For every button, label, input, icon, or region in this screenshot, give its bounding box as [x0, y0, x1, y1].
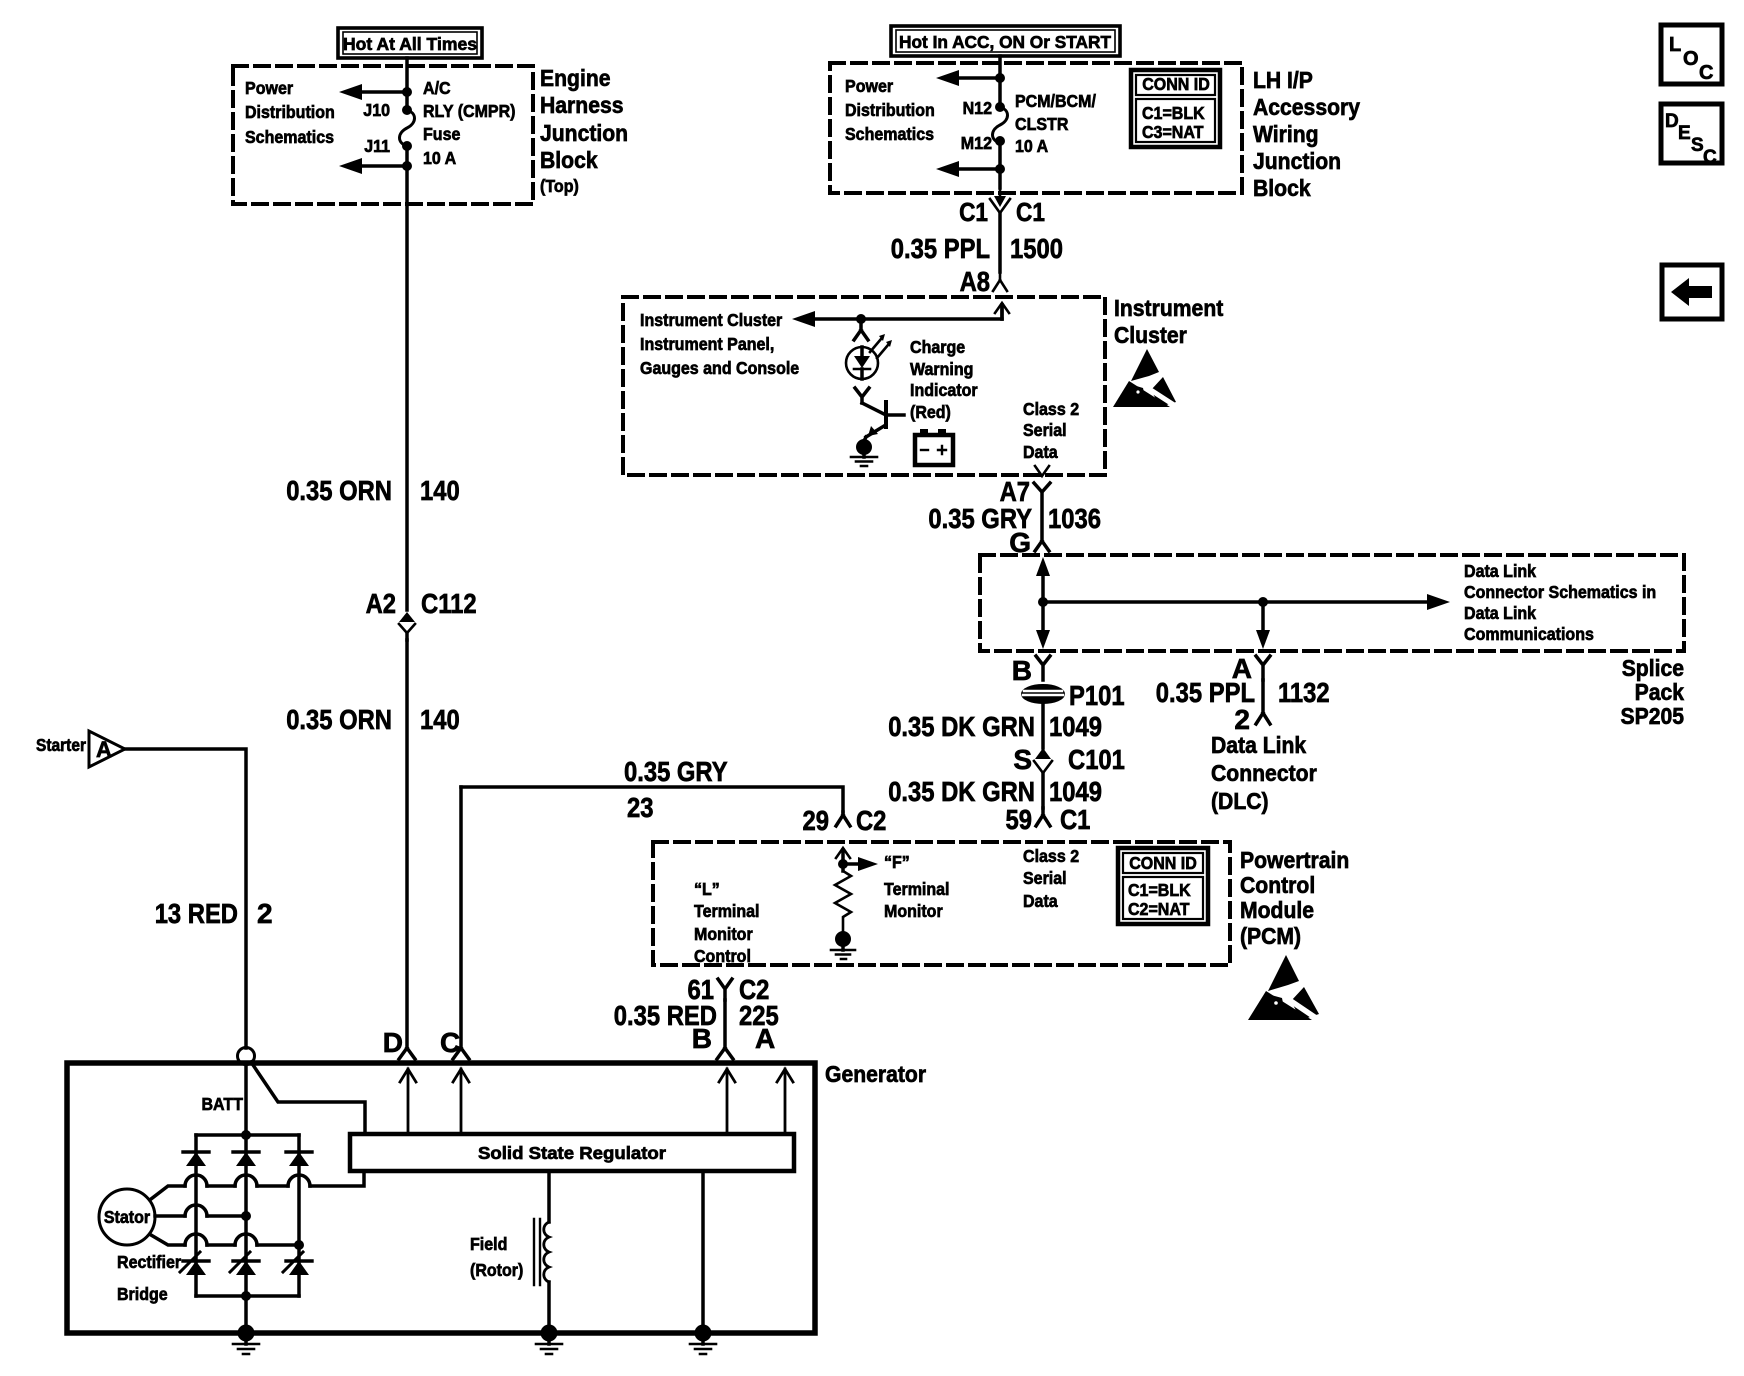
wire: 0.35 GRY 23 from generator C to PCM 29 — [461, 787, 843, 1048]
connector A7 at IC bottom — [1000, 466, 1050, 507]
ground (PCM) — [831, 931, 855, 959]
bottom diodes (avalanche) — [180, 1252, 312, 1275]
svg-text:1049: 1049 — [1049, 776, 1102, 807]
stator phase line 2 — [155, 1205, 251, 1221]
svg-text:Distribution: Distribution — [845, 100, 935, 120]
svg-text:140: 140 — [420, 704, 460, 735]
label: Instrument Cluster (right) — [1114, 295, 1223, 348]
svg-text:CLSTR: CLSTR — [1015, 114, 1069, 134]
svg-text:29: 29 — [803, 805, 830, 836]
stator phase line 3 — [151, 1234, 304, 1250]
Generator solid box — [67, 1063, 815, 1333]
svg-text:B: B — [692, 1023, 712, 1054]
svg-text:P101: P101 — [1069, 680, 1125, 711]
svg-text:0.35 DK GRN: 0.35 DK GRN — [888, 776, 1035, 807]
svg-text:Communications: Communications — [1464, 624, 1594, 644]
svg-text:Terminal: Terminal — [694, 901, 760, 921]
svg-text:Data: Data — [1023, 891, 1058, 911]
pins D / C labels — [383, 1027, 460, 1058]
svg-text:Serial: Serial — [1023, 420, 1067, 440]
svg-text:S: S — [1013, 744, 1032, 775]
label: LH I/P Accessory Wiring Junction Block — [1253, 67, 1360, 201]
svg-text:J11: J11 — [364, 136, 390, 156]
CONN ID box (LH): C1=BLK C3=NAT — [1131, 70, 1220, 147]
svg-text:C: C — [1703, 147, 1717, 168]
connector A8 into Instrument Cluster — [960, 266, 1009, 319]
svg-text:D: D — [383, 1027, 403, 1058]
svg-text:Block: Block — [540, 147, 598, 173]
label 0.35 PPL 1500 — [891, 233, 1063, 264]
svg-text:Fuse: Fuse — [423, 124, 461, 144]
svg-text:Indicator: Indicator — [910, 380, 978, 400]
battery icon — [915, 429, 953, 465]
ESD symbol (instrument cluster) — [1113, 349, 1176, 407]
svg-text:Starter: Starter — [36, 735, 86, 755]
DESC icon box — [1661, 104, 1722, 168]
svg-text:1049: 1049 — [1049, 711, 1102, 742]
text: Instrument Cluster Instrument Panel, Gauges and Console — [640, 310, 799, 378]
wire to splice pack — [1040, 492, 1044, 541]
fuse PCM/BCM/CLSTR 10A — [993, 102, 1008, 146]
svg-text:1500: 1500 — [1010, 233, 1063, 264]
back arrow icon box — [1662, 265, 1722, 319]
rectifier bridge columns — [196, 1135, 299, 1296]
label 0.35 PPL 1132 — [1156, 677, 1330, 708]
connector C into generator — [453, 1048, 469, 1059]
label 0.35 ORN 140 (upper) — [286, 475, 460, 506]
connector B below splice — [1012, 655, 1050, 686]
svg-text:Schematics: Schematics — [845, 124, 934, 144]
wire to generator B/A — [723, 1000, 727, 1048]
LOC icon box — [1661, 25, 1722, 84]
svg-text:2: 2 — [1234, 704, 1250, 735]
svg-text:C1=BLK: C1=BLK — [1128, 880, 1191, 900]
svg-text:A8: A8 — [960, 266, 990, 297]
pins B / A labels — [692, 1023, 775, 1054]
svg-text:Module: Module — [1240, 897, 1314, 923]
svg-text:(PCM): (PCM) — [1240, 923, 1301, 949]
wire BATT to regulator (diagonal) — [251, 1062, 365, 1134]
ground (regulator) — [690, 1325, 716, 1355]
BATT terminal circle — [238, 1048, 255, 1065]
LED charge warning indicator — [846, 334, 892, 379]
svg-text:59: 59 — [1006, 804, 1033, 835]
svg-text:(Rotor): (Rotor) — [470, 1260, 523, 1280]
svg-text:CONN ID: CONN ID — [1129, 853, 1197, 873]
svg-text:C112: C112 — [421, 588, 477, 619]
svg-text:E: E — [1678, 123, 1691, 144]
connector C1 / C1 (junction block to harness) — [959, 186, 1045, 272]
CONN ID box (PCM): C1=BLK C2=NAT — [1118, 848, 1208, 924]
svg-text:“F”: “F” — [884, 852, 910, 872]
svg-text:Connector Schematics in: Connector Schematics in — [1464, 582, 1656, 602]
svg-text:Hot In ACC, ON Or START: Hot In ACC, ON Or START — [899, 32, 1111, 52]
svg-text:Rectifier: Rectifier — [117, 1252, 181, 1272]
connector C101 pin S — [1013, 744, 1125, 808]
svg-text:0.35 GRY: 0.35 GRY — [624, 756, 728, 787]
Solid State Regulator box — [350, 1134, 794, 1171]
text: Charge Warning Indicator (Red) — [910, 337, 978, 422]
svg-text:RLY (CMPR): RLY (CMPR) — [423, 101, 516, 121]
svg-text:A: A — [755, 1023, 775, 1054]
svg-text:Harness: Harness — [540, 92, 624, 118]
label 0.35 DK GRN 1049 (lower) — [888, 776, 1102, 807]
splice grommet P101 — [1022, 680, 1125, 748]
svg-text:Power: Power — [245, 78, 293, 98]
svg-text:Class 2: Class 2 — [1023, 399, 1079, 419]
Hot In ACC, ON Or START label box — [891, 26, 1120, 56]
wire BATT down to rectifier bus — [244, 1064, 248, 1135]
splice branch down to DLC — [1256, 602, 1270, 649]
svg-text:Gauges and Console: Gauges and Console — [640, 358, 799, 378]
svg-text:Schematics: Schematics — [245, 127, 334, 147]
wire: 13 RED 2 from starter to generator BATT — [125, 749, 246, 1048]
svg-text:Block: Block — [1253, 175, 1311, 201]
rectifier bridge bottom bus — [196, 1291, 299, 1333]
svg-text:1132: 1132 — [1278, 677, 1330, 708]
Engine Harness Junction Block dashed box — [233, 66, 533, 204]
text: Class 2 Serial Data (IC) — [1023, 399, 1079, 462]
svg-text:Distribution: Distribution — [245, 102, 335, 122]
svg-text:C1: C1 — [959, 197, 988, 227]
svg-text:Hot At All Times: Hot At All Times — [343, 34, 477, 54]
connector between LED and transistor — [855, 388, 869, 403]
svg-text:Data Link: Data Link — [1211, 732, 1307, 758]
fuse A/C RLY (CMPR) 10A — [400, 105, 415, 151]
svg-text:Instrument Panel,: Instrument Panel, — [640, 334, 774, 354]
svg-text:(Red): (Red) — [910, 402, 951, 422]
svg-text:Power: Power — [845, 76, 893, 96]
label 0.35 GRY 23 — [624, 756, 728, 823]
ESD symbol (PCM) — [1248, 955, 1319, 1020]
fuse value: PCM/BCM/CLSTR 10 A — [1015, 91, 1096, 156]
connector D into generator — [399, 1048, 415, 1059]
svg-text:PCM/BCM/: PCM/BCM/ — [1015, 91, 1096, 111]
svg-text:Monitor: Monitor — [694, 924, 753, 944]
splice horizontal wire to data link schematics — [1043, 594, 1450, 610]
connector C2 pin 61 below PCM — [688, 974, 770, 1005]
svg-text:Instrument Cluster: Instrument Cluster — [640, 310, 782, 330]
svg-text:D: D — [1665, 111, 1679, 132]
svg-text:Accessory: Accessory — [1253, 94, 1360, 120]
label 0.35 RED 225 — [614, 1000, 779, 1031]
svg-text:C1: C1 — [1060, 804, 1090, 835]
connector into generator top — [717, 1048, 733, 1059]
svg-text:C1=BLK: C1=BLK — [1142, 103, 1205, 123]
text: Data Link Connector Schematics in Data Link Communications — [1464, 561, 1656, 644]
rectifier bridge top bus — [196, 1130, 299, 1140]
svg-text:0.35 PPL: 0.35 PPL — [891, 233, 990, 264]
svg-text:Monitor: Monitor — [884, 901, 943, 921]
label: Data Link Connector (DLC) — [1211, 732, 1317, 814]
label 13 RED 2 — [155, 898, 273, 929]
wire: 0.35 ORN 140 down to generator D — [405, 640, 409, 1048]
text: Power Distribution Schematics (LH box) — [845, 76, 935, 144]
svg-text:Warning: Warning — [910, 359, 973, 379]
wire arrow to Power Distribution (lower, LH) — [936, 141, 1005, 177]
Splice Pack SP205 dashed box — [980, 555, 1684, 651]
svg-text:Generator: Generator — [825, 1061, 926, 1087]
svg-text:Cluster: Cluster — [1114, 322, 1187, 348]
svg-text:“L”: “L” — [694, 879, 720, 899]
svg-text:0.35 ORN: 0.35 ORN — [286, 704, 392, 735]
svg-text:Charge: Charge — [910, 337, 965, 357]
Field (Rotor) coil — [470, 1171, 549, 1333]
splice vertical wire with arrows — [1036, 557, 1050, 649]
svg-text:Data: Data — [1023, 442, 1058, 462]
svg-text:13 RED: 13 RED — [155, 898, 238, 929]
generator terminal arrows D C B A — [400, 1069, 793, 1134]
svg-text:N12: N12 — [963, 98, 993, 118]
text: "L" Terminal Monitor Control — [694, 879, 760, 966]
wire arrow to Power Distribution (upper) — [339, 84, 412, 100]
connector C1 pin 59 into PCM — [1006, 804, 1091, 835]
svg-text:Pack: Pack — [1635, 679, 1685, 705]
label: Powertrain Control Module (PCM) — [1240, 847, 1349, 949]
svg-text:C2=NAT: C2=NAT — [1128, 899, 1190, 919]
text: Class 2 Serial Data (PCM) — [1023, 846, 1079, 911]
svg-text:Junction: Junction — [1253, 148, 1341, 174]
connector C2 pin 29 into PCM — [803, 805, 887, 836]
svg-text:LH I/P: LH I/P — [1253, 67, 1313, 93]
svg-text:C101: C101 — [1068, 744, 1125, 775]
svg-text:A/C: A/C — [423, 78, 451, 98]
svg-text:Control: Control — [694, 946, 751, 966]
label 0.35 DK GRN 1049 (upper) — [888, 711, 1102, 742]
svg-text:Powertrain: Powertrain — [1240, 847, 1349, 873]
svg-text:C3=NAT: C3=NAT — [1142, 122, 1204, 142]
connector split below junction — [854, 319, 868, 340]
ground (bridge) — [233, 1325, 259, 1355]
label: Splice Pack SP205 — [1621, 655, 1685, 729]
svg-text:CONN ID: CONN ID — [1142, 74, 1210, 94]
Stator circle — [99, 1189, 155, 1245]
svg-text:Terminal: Terminal — [884, 879, 950, 899]
text: Power Distribution Schematics (engine box) — [245, 78, 335, 147]
wire: IC internal horizontal with left arrow — [792, 305, 1002, 327]
LH I/P Accessory Wiring Junction Block dashed box — [830, 63, 1242, 193]
svg-text:C: C — [1699, 62, 1713, 84]
text: "F" Terminal Monitor — [884, 852, 950, 921]
svg-text:Solid State Regulator: Solid State Regulator — [478, 1143, 666, 1163]
svg-text:Data Link: Data Link — [1464, 603, 1536, 623]
connector C112 pin A2 — [366, 588, 477, 640]
svg-text:L: L — [1669, 34, 1681, 56]
svg-text:Engine: Engine — [540, 65, 611, 91]
svg-text:A2: A2 — [366, 588, 396, 619]
stator phase line 1 (to regulator) — [151, 1174, 364, 1199]
svg-text:C1: C1 — [1016, 197, 1045, 227]
wire down to C1 connector — [998, 169, 1002, 188]
svg-text:2: 2 — [257, 898, 273, 929]
label 0.35 ORN 140 (lower) — [286, 704, 460, 735]
Powertrain Control Module dashed box — [653, 842, 1230, 965]
svg-text:C2: C2 — [856, 805, 886, 836]
svg-text:Class 2: Class 2 — [1023, 846, 1079, 866]
Starter triangle connector pin A — [36, 731, 125, 767]
label: Engine Harness Junction Block (Top) — [540, 65, 628, 196]
svg-text:(DLC): (DLC) — [1211, 788, 1269, 814]
svg-text:Wiring: Wiring — [1253, 121, 1319, 147]
svg-text:10 A: 10 A — [1015, 136, 1048, 156]
svg-text:Data Link: Data Link — [1464, 561, 1536, 581]
label 0.35 GRY 1036 — [928, 503, 1101, 534]
Instrument Cluster dashed box — [623, 297, 1105, 475]
svg-text:Splice: Splice — [1622, 655, 1684, 681]
top diodes — [183, 1152, 312, 1166]
wire and pin 2 of DLC — [1234, 680, 1270, 735]
wire: 0.35 ORN 140 down to C112 — [405, 166, 409, 610]
svg-text:BATT: BATT — [202, 1094, 244, 1114]
svg-text:SP205: SP205 — [1621, 703, 1685, 729]
svg-text:Bridge: Bridge — [117, 1284, 168, 1304]
svg-text:140: 140 — [420, 475, 460, 506]
svg-text:0.35 DK GRN: 0.35 DK GRN — [888, 711, 1035, 742]
transistor (driver) — [862, 402, 904, 441]
Hot At All Times label box — [338, 28, 482, 58]
svg-text:Serial: Serial — [1023, 868, 1067, 888]
svg-text:M12: M12 — [961, 133, 992, 153]
svg-text:Instrument: Instrument — [1114, 295, 1223, 321]
wire: PPL feed from Hot In ACC — [998, 56, 1002, 107]
svg-text:J10: J10 — [363, 100, 390, 120]
regulator right ground wire — [701, 1171, 705, 1333]
PCM terminal monitor branch: arrow up, F arrow, resistor, ground — [836, 848, 878, 871]
svg-text:0.35 ORN: 0.35 ORN — [286, 475, 392, 506]
fuse value: A/C RLY (CMPR) Fuse 10 A — [423, 78, 516, 168]
wire arrow to Power Distribution (lower) — [339, 146, 412, 174]
connector A below splice (to DLC) — [1232, 653, 1270, 684]
connector G into splice pack — [1009, 527, 1049, 558]
svg-text:(Top): (Top) — [540, 176, 579, 196]
svg-text:Field: Field — [470, 1234, 507, 1254]
svg-text:Control: Control — [1240, 872, 1315, 898]
svg-text:Junction: Junction — [540, 120, 628, 146]
svg-text:1036: 1036 — [1048, 503, 1101, 534]
svg-text:10 A: 10 A — [423, 148, 456, 168]
wire: vertical ORN feed from Hot At All Times — [405, 58, 409, 110]
svg-text:S: S — [1691, 135, 1704, 156]
text: Rectifier Bridge — [117, 1252, 181, 1304]
svg-text:B: B — [1012, 655, 1032, 686]
ground (IC) — [851, 439, 877, 466]
ground (field) — [536, 1325, 562, 1355]
svg-text:A: A — [96, 737, 112, 762]
svg-text:Connector: Connector — [1211, 760, 1317, 786]
resistor "L" terminal monitor — [835, 871, 851, 931]
svg-text:O: O — [1683, 48, 1699, 70]
svg-text:23: 23 — [627, 792, 654, 823]
svg-text:Stator: Stator — [104, 1207, 150, 1227]
wire arrow to Power Distribution (upper, LH) — [936, 70, 1005, 86]
